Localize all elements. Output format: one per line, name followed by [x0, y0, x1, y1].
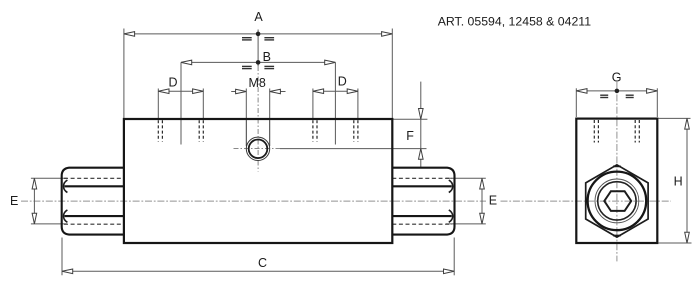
svg-text:F: F	[406, 129, 414, 143]
svg-text:D: D	[169, 75, 178, 89]
svg-text:G: G	[612, 70, 622, 84]
svg-text:ART. 05594, 12458 & 04211: ART. 05594, 12458 & 04211	[438, 14, 592, 28]
svg-text:B: B	[263, 50, 271, 64]
svg-text:M8: M8	[249, 76, 266, 90]
svg-text:E: E	[10, 194, 18, 208]
svg-text:A: A	[254, 10, 263, 24]
svg-text:C: C	[258, 256, 267, 270]
svg-text:H: H	[674, 175, 683, 189]
svg-text:D: D	[338, 75, 347, 89]
svg-text:E: E	[489, 194, 497, 208]
